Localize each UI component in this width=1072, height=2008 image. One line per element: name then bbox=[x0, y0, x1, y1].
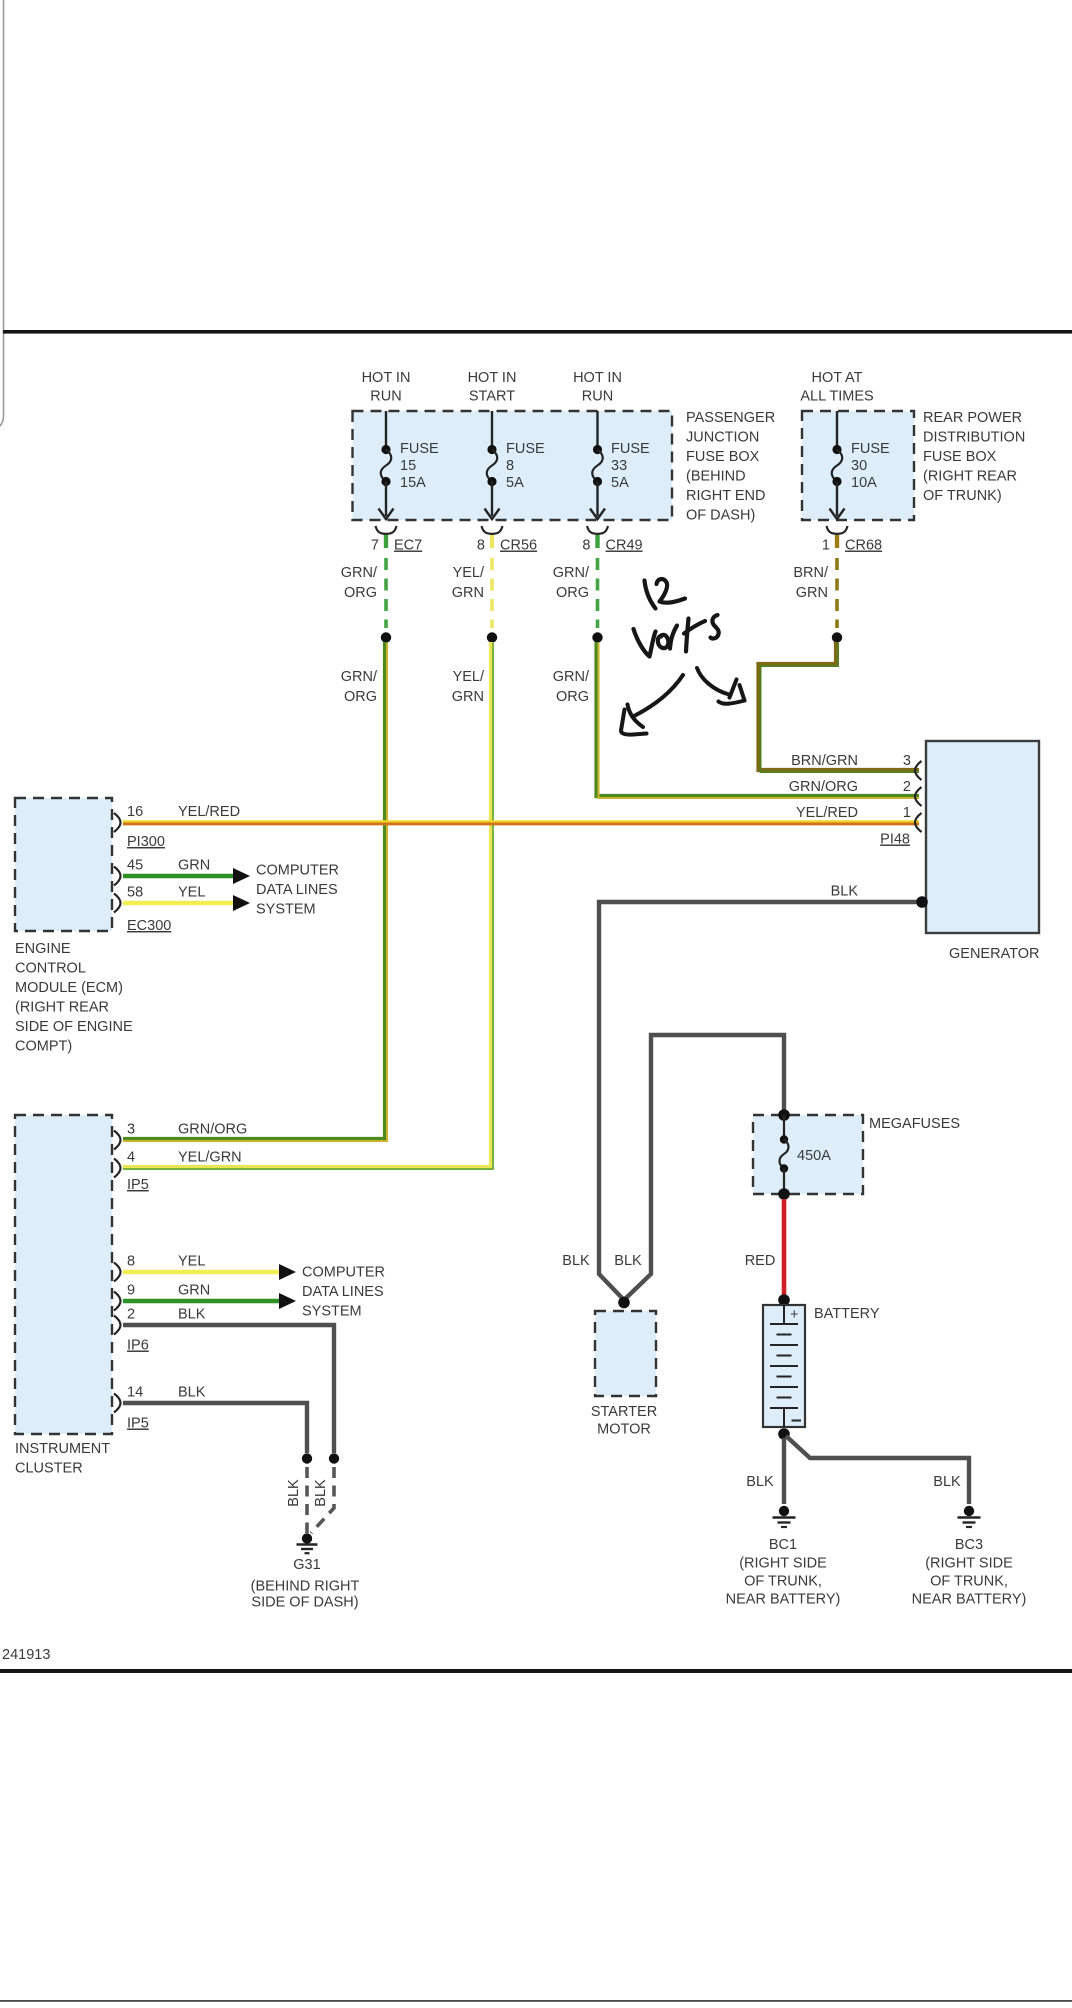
svg-text:FUSE: FUSE bbox=[611, 441, 650, 457]
ECM pin 58 connector bbox=[114, 894, 121, 913]
arrow to computer data lines (GRN cluster) bbox=[279, 1293, 296, 1309]
svg-text:FUSE BOX: FUSE BOX bbox=[686, 449, 760, 465]
wire BLK dashed right to G31 bbox=[311, 1467, 334, 1533]
svg-text:GRN: GRN bbox=[452, 585, 484, 601]
svg-text:IP5: IP5 bbox=[127, 1416, 149, 1432]
svg-text:(RIGHT SIDE: (RIGHT SIDE bbox=[925, 1556, 1013, 1572]
svg-text:SYSTEM: SYSTEM bbox=[256, 902, 316, 918]
svg-text:33: 33 bbox=[611, 458, 627, 474]
svg-text:GRN: GRN bbox=[796, 585, 828, 601]
label BLK (right starter wire) bbox=[614, 1253, 642, 1269]
svg-text:HOT AT: HOT AT bbox=[811, 370, 862, 386]
connector 8 CR56 bbox=[477, 526, 537, 554]
svg-text:FUSE: FUSE bbox=[851, 441, 890, 457]
label BLK (BC3) bbox=[933, 1474, 961, 1490]
svg-text:8: 8 bbox=[506, 458, 514, 474]
wire GRN/ORG dashed (from EC7) bbox=[384, 558, 388, 628]
cluster pin 14 connector bbox=[114, 1394, 121, 1413]
svg-text:YEL/GRN: YEL/GRN bbox=[178, 1150, 242, 1166]
svg-text:8: 8 bbox=[477, 538, 485, 554]
svg-text:CR68: CR68 bbox=[845, 538, 882, 554]
svg-text:30: 30 bbox=[851, 458, 867, 474]
svg-text:START: START bbox=[469, 389, 515, 405]
instrument cluster label bbox=[15, 1441, 110, 1477]
svg-text:GRN/: GRN/ bbox=[553, 669, 590, 685]
svg-text:BLK: BLK bbox=[746, 1474, 774, 1490]
svg-text:BRN/GRN: BRN/GRN bbox=[791, 753, 858, 769]
svg-text:SIDE OF DASH): SIDE OF DASH) bbox=[251, 1595, 358, 1611]
node junction dot CR68 column bbox=[832, 632, 842, 642]
ground BC1 label bbox=[726, 1537, 841, 1608]
node junction dot EC7 column bbox=[381, 632, 391, 642]
label BLK (left starter wire) bbox=[562, 1253, 590, 1269]
svg-text:BRN/: BRN/ bbox=[793, 565, 829, 581]
cluster pin 14 labels bbox=[127, 1385, 206, 1401]
label BLK rotated left bbox=[286, 1479, 302, 1507]
page edge line bbox=[0, 0, 4, 429]
svg-text:GRN: GRN bbox=[452, 689, 484, 705]
svg-text:(BEHIND RIGHT: (BEHIND RIGHT bbox=[251, 1579, 360, 1595]
svg-text:COMPUTER: COMPUTER bbox=[256, 863, 339, 879]
connector EC300 bbox=[127, 918, 171, 934]
svg-text:BLK: BLK bbox=[286, 1479, 302, 1507]
cluster pin 9 labels bbox=[127, 1283, 210, 1299]
wire BLK battery to BC1 bbox=[782, 1438, 786, 1504]
svg-text:STARTER: STARTER bbox=[591, 1404, 657, 1420]
handwritten arrow to BRN/GRN wire bbox=[697, 668, 745, 704]
arrow to computer data lines (YEL) bbox=[233, 895, 250, 911]
battery label bbox=[814, 1306, 880, 1322]
wire BRN/GRN dashed (from CR68) bbox=[835, 558, 839, 628]
svg-text:45: 45 bbox=[127, 858, 143, 874]
svg-text:GRN/: GRN/ bbox=[341, 565, 378, 581]
ground BC3 bbox=[958, 1506, 981, 1527]
ground BC1 bbox=[773, 1506, 796, 1527]
svg-text:YEL/RED: YEL/RED bbox=[796, 805, 858, 821]
svg-text:3: 3 bbox=[127, 1122, 135, 1138]
arrow to computer data lines (YEL cluster) bbox=[279, 1264, 296, 1280]
svg-text:BLK: BLK bbox=[933, 1474, 961, 1490]
cluster pin 2 connector bbox=[114, 1316, 121, 1335]
svg-text:OF TRUNK): OF TRUNK) bbox=[923, 488, 1002, 504]
megafuse 450A bbox=[778, 1109, 831, 1200]
megafuses label bbox=[869, 1116, 960, 1132]
connector 1 CR68 bbox=[822, 526, 882, 554]
svg-text:ORG: ORG bbox=[556, 689, 589, 705]
label GRN/ORG lower (CR49 column) bbox=[553, 669, 590, 705]
svg-text:BLK: BLK bbox=[313, 1479, 329, 1507]
connector 8 CR49 bbox=[582, 526, 642, 554]
wire GRN/ORG solid from fuse 15 to instrument cluster pin 3 bbox=[123, 642, 387, 1141]
wire BLK from cluster pin 14 bbox=[123, 1403, 307, 1453]
svg-text:OF DASH): OF DASH) bbox=[686, 508, 755, 524]
connector 7 EC7 bbox=[371, 526, 422, 554]
starter motor box bbox=[595, 1311, 656, 1396]
generator pin 2 connector bbox=[915, 787, 922, 806]
svg-text:7: 7 bbox=[371, 538, 379, 554]
svg-text:COMPT): COMPT) bbox=[15, 1039, 72, 1055]
svg-text:FUSE: FUSE bbox=[400, 441, 439, 457]
label YEL/GRN upper (CR56 column) bbox=[452, 565, 485, 601]
svg-text:8: 8 bbox=[582, 538, 590, 554]
node junction dot CR49 column bbox=[592, 632, 602, 642]
wire BLK battery to BC3 bbox=[786, 1436, 969, 1504]
handwritten arrow to GRN/ORG wire bbox=[621, 675, 683, 735]
svg-text:450A: 450A bbox=[797, 1148, 831, 1164]
svg-text:241913: 241913 bbox=[2, 1647, 50, 1663]
cluster pin 4 labels bbox=[127, 1150, 242, 1166]
svg-text:DATA LINES: DATA LINES bbox=[302, 1284, 384, 1300]
generator box bbox=[926, 741, 1039, 933]
svg-text:(RIGHT REAR: (RIGHT REAR bbox=[923, 469, 1017, 485]
svg-text:16: 16 bbox=[127, 804, 143, 820]
svg-text:5A: 5A bbox=[506, 475, 524, 491]
svg-text:YEL/: YEL/ bbox=[453, 669, 485, 685]
wire BLK from generator to starter motor bbox=[599, 902, 922, 1300]
engine control module box bbox=[15, 798, 112, 931]
svg-text:5A: 5A bbox=[611, 475, 629, 491]
connector IP5 lower bbox=[127, 1416, 149, 1432]
diagram number 241913 bbox=[2, 1647, 50, 1663]
svg-text:FUSE: FUSE bbox=[506, 441, 545, 457]
label GRN/ORG upper (EC7 column) bbox=[341, 565, 378, 601]
label GRN/ORG lower (EC7 column) bbox=[341, 669, 378, 705]
generator pin 1 connector bbox=[915, 813, 922, 832]
svg-text:+: + bbox=[790, 1307, 798, 1323]
cluster pin 8 labels bbox=[127, 1254, 205, 1270]
svg-text:(BEHIND: (BEHIND bbox=[686, 469, 746, 485]
svg-text:SYSTEM: SYSTEM bbox=[302, 1304, 362, 1320]
svg-text:ALL TIMES: ALL TIMES bbox=[800, 389, 873, 405]
svg-text:YEL: YEL bbox=[178, 885, 205, 901]
svg-text:BLK: BLK bbox=[614, 1253, 642, 1269]
svg-text:9: 9 bbox=[127, 1283, 135, 1299]
svg-text:YEL: YEL bbox=[178, 1254, 205, 1270]
wire YEL/GRN solid from fuse 8 to instrument cluster pin 4 bbox=[123, 642, 493, 1169]
passenger junction fuse box bbox=[353, 411, 673, 520]
svg-text:BLK: BLK bbox=[562, 1253, 590, 1269]
svg-text:NEAR BATTERY): NEAR BATTERY) bbox=[726, 1592, 841, 1608]
svg-text:HOT IN: HOT IN bbox=[362, 370, 411, 386]
svg-text:GRN/: GRN/ bbox=[341, 669, 378, 685]
wire BLK from starter motor to megafuse bbox=[624, 1035, 784, 1300]
handwritten annotation 12 Volts bbox=[634, 579, 719, 656]
fuse 30 10A bbox=[830, 411, 891, 519]
cluster pin 9 connector bbox=[114, 1292, 121, 1311]
label BLK (generator) bbox=[831, 884, 859, 900]
svg-text:ENGINE: ENGINE bbox=[15, 941, 71, 957]
svg-text:JUNCTION: JUNCTION bbox=[686, 430, 759, 446]
node dot pin14 wire bbox=[302, 1453, 312, 1463]
generator pin 3 labels bbox=[791, 753, 911, 769]
svg-text:MEGAFUSES: MEGAFUSES bbox=[869, 1116, 960, 1132]
label HOT IN RUN (fuse 33) bbox=[573, 370, 622, 405]
svg-text:HOT IN: HOT IN bbox=[573, 370, 622, 386]
node dot pin2 wire bbox=[329, 1453, 339, 1463]
svg-text:CR56: CR56 bbox=[500, 538, 537, 554]
svg-text:RUN: RUN bbox=[582, 389, 613, 405]
svg-text:(RIGHT REAR: (RIGHT REAR bbox=[15, 1000, 109, 1016]
ECM pin 45 connector bbox=[114, 867, 121, 886]
svg-text:GENERATOR: GENERATOR bbox=[949, 946, 1040, 962]
label RED bbox=[745, 1253, 776, 1269]
wire BLK from cluster pin 2 bbox=[123, 1325, 334, 1453]
label BRN/GRN (CR68 column) bbox=[793, 565, 829, 601]
label HOT IN RUN (fuse 15) bbox=[362, 370, 411, 405]
node junction dot CR56 column bbox=[487, 632, 497, 642]
starter motor label bbox=[591, 1404, 657, 1438]
wire GRN/ORG dashed (from CR49) bbox=[596, 558, 600, 628]
svg-text:15A: 15A bbox=[400, 475, 426, 491]
svg-text:(RIGHT SIDE: (RIGHT SIDE bbox=[739, 1556, 827, 1572]
svg-text:COMPUTER: COMPUTER bbox=[302, 1265, 385, 1281]
svg-text:15: 15 bbox=[400, 458, 416, 474]
connector IP5 upper bbox=[127, 1177, 149, 1193]
label computer data lines system (cluster) bbox=[302, 1265, 385, 1320]
svg-text:BLK: BLK bbox=[178, 1385, 206, 1401]
instrument cluster box bbox=[15, 1115, 112, 1434]
svg-text:BLK: BLK bbox=[831, 884, 859, 900]
svg-text:4: 4 bbox=[127, 1150, 135, 1166]
svg-text:EC7: EC7 bbox=[394, 538, 422, 554]
svg-text:HOT IN: HOT IN bbox=[468, 370, 517, 386]
label HOT IN START (fuse 8) bbox=[468, 370, 517, 405]
megafuses box bbox=[753, 1115, 863, 1194]
wire GRN from ECM pin 45 bbox=[123, 874, 233, 878]
wire YEL/RED from ECM pin 16 to generator pin 1 bbox=[123, 821, 919, 823]
passenger junction fuse box label bbox=[686, 410, 775, 524]
svg-text:GRN/ORG: GRN/ORG bbox=[178, 1122, 247, 1138]
svg-text:OF TRUNK,: OF TRUNK, bbox=[930, 1574, 1008, 1590]
svg-text:14: 14 bbox=[127, 1385, 143, 1401]
svg-text:8: 8 bbox=[127, 1254, 135, 1270]
wire YEL from cluster pin 8 bbox=[123, 1270, 279, 1274]
ECM pin 16 connector bbox=[114, 813, 121, 832]
generator label bbox=[949, 946, 1040, 962]
svg-text:OF TRUNK,: OF TRUNK, bbox=[744, 1574, 822, 1590]
svg-text:RUN: RUN bbox=[370, 389, 401, 405]
connector IP6 bbox=[127, 1338, 149, 1354]
rear power distribution fuse box label bbox=[923, 410, 1025, 504]
svg-text:1: 1 bbox=[822, 538, 830, 554]
svg-text:GRN: GRN bbox=[178, 858, 210, 874]
svg-text:REAR POWER: REAR POWER bbox=[923, 410, 1022, 426]
svg-text:58: 58 bbox=[127, 885, 143, 901]
svg-text:BC3: BC3 bbox=[955, 1537, 983, 1553]
label YEL/GRN lower (CR56 column) bbox=[452, 669, 485, 705]
svg-text:BLK: BLK bbox=[178, 1307, 206, 1323]
svg-text:IP6: IP6 bbox=[127, 1338, 149, 1354]
svg-text:YEL/RED: YEL/RED bbox=[178, 804, 240, 820]
ECM pin 45 labels bbox=[127, 858, 210, 874]
svg-text:DISTRIBUTION: DISTRIBUTION bbox=[923, 430, 1025, 446]
svg-text:FUSE BOX: FUSE BOX bbox=[923, 449, 997, 465]
label computer data lines system (ECM) bbox=[256, 863, 339, 918]
label GRN/ORG upper (CR49 column) bbox=[553, 565, 590, 601]
connector PI48 bbox=[880, 832, 910, 848]
engine control module label bbox=[15, 941, 133, 1055]
ECM pin 58 labels bbox=[127, 885, 205, 901]
cluster pin 3 labels bbox=[127, 1122, 247, 1138]
cluster pin 2 labels bbox=[127, 1307, 206, 1323]
connector PI300 bbox=[127, 834, 165, 850]
svg-text:1: 1 bbox=[903, 805, 911, 821]
svg-text:ORG: ORG bbox=[344, 689, 377, 705]
svg-text:G31: G31 bbox=[293, 1557, 320, 1573]
svg-text:CONTROL: CONTROL bbox=[15, 961, 86, 977]
cluster pin 3 connector bbox=[114, 1131, 121, 1150]
generator pin 1 labels bbox=[796, 805, 911, 821]
svg-text:2: 2 bbox=[127, 1307, 135, 1323]
node dot generator BLK pin bbox=[916, 896, 928, 908]
svg-text:RED: RED bbox=[745, 1253, 776, 1269]
svg-text:3: 3 bbox=[903, 753, 911, 769]
label BLK rotated right bbox=[313, 1479, 329, 1507]
bottom rule bbox=[0, 1669, 1072, 1673]
svg-text:GRN/: GRN/ bbox=[553, 565, 590, 581]
label BLK (BC1) bbox=[746, 1474, 774, 1490]
svg-text:2: 2 bbox=[903, 779, 911, 795]
svg-text:PI300: PI300 bbox=[127, 834, 165, 850]
generator pin 2 labels bbox=[789, 779, 911, 795]
wire RED from megafuse to battery bbox=[782, 1199, 787, 1297]
svg-text:ORG: ORG bbox=[344, 585, 377, 601]
wire YEL from ECM pin 58 bbox=[123, 901, 233, 905]
svg-text:NEAR BATTERY): NEAR BATTERY) bbox=[912, 1592, 1027, 1608]
svg-text:ORG: ORG bbox=[556, 585, 589, 601]
ground G31 bbox=[297, 1533, 318, 1553]
svg-text:EC300: EC300 bbox=[127, 918, 171, 934]
svg-text:INSTRUMENT: INSTRUMENT bbox=[15, 1441, 110, 1457]
ground BC3 label bbox=[912, 1537, 1027, 1608]
svg-text:BC1: BC1 bbox=[769, 1537, 797, 1553]
footer hairline bbox=[0, 2000, 1072, 2002]
svg-text:IP5: IP5 bbox=[127, 1177, 149, 1193]
fuse 33 5A bbox=[590, 411, 650, 519]
label HOT AT ALL TIMES (fuse 30) bbox=[800, 370, 873, 405]
svg-text:YEL/: YEL/ bbox=[453, 565, 485, 581]
svg-text:10A: 10A bbox=[851, 475, 877, 491]
svg-text:MOTOR: MOTOR bbox=[597, 1422, 651, 1438]
node dot starter motor bbox=[618, 1297, 630, 1309]
ECM pin 16 labels bbox=[127, 804, 240, 820]
rear power distribution fuse box bbox=[802, 411, 914, 520]
wire GRN/ORG solid from fuse 33 to generator pin 2 bbox=[597, 642, 920, 798]
svg-text:DATA LINES: DATA LINES bbox=[256, 882, 338, 898]
fuse 8 5A bbox=[485, 411, 546, 519]
svg-text:GRN/ORG: GRN/ORG bbox=[789, 779, 858, 795]
node dot battery negative bbox=[778, 1428, 790, 1440]
svg-text:BATTERY: BATTERY bbox=[814, 1306, 880, 1322]
wire BRN/GRN solid from CR68 to generator pin 3 bbox=[759, 642, 920, 772]
wire YEL/GRN dashed (from CR56) bbox=[490, 558, 494, 628]
battery bbox=[763, 1294, 805, 1427]
wire BLK dashed left to G31 bbox=[305, 1467, 309, 1533]
fuse 15 15A bbox=[379, 411, 440, 519]
svg-text:CR49: CR49 bbox=[606, 538, 643, 554]
wire GRN from cluster pin 9 bbox=[123, 1299, 279, 1303]
svg-text:RIGHT END: RIGHT END bbox=[686, 488, 766, 504]
cluster pin 8 connector bbox=[114, 1263, 121, 1282]
svg-text:PI48: PI48 bbox=[880, 832, 910, 848]
svg-text:GRN: GRN bbox=[178, 1283, 210, 1299]
cluster pin 4 connector bbox=[114, 1159, 121, 1178]
svg-text:SIDE OF ENGINE: SIDE OF ENGINE bbox=[15, 1019, 133, 1035]
generator pin 3 connector bbox=[915, 761, 922, 780]
arrow to computer data lines (GRN) bbox=[233, 868, 250, 884]
svg-text:PASSENGER: PASSENGER bbox=[686, 410, 775, 426]
top rule bbox=[3, 330, 1072, 334]
svg-text:CLUSTER: CLUSTER bbox=[15, 1461, 83, 1477]
svg-text:MODULE (ECM): MODULE (ECM) bbox=[15, 980, 123, 996]
ground G31 label bbox=[251, 1557, 360, 1611]
